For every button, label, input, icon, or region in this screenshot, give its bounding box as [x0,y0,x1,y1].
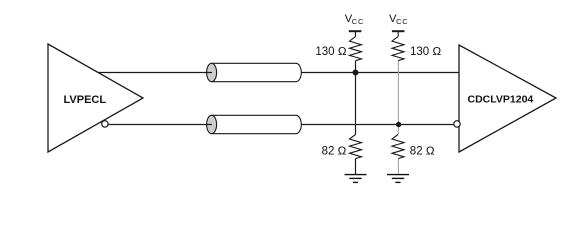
transmission line TL2 (bottom coax) [207,115,302,133]
svg-text:CC: CC [396,17,408,26]
wire: top from transmission line to receiver [301,72,459,74]
ground (left) [345,175,367,183]
ground (right) [387,175,409,183]
value label 82 ohm (right) [410,145,435,157]
wire: R4 bottom to ground (right) [397,159,399,175]
svg-text:130 Ω: 130 Ω [315,46,346,58]
power VCC symbol (left) [345,13,365,37]
resistor R4 82 ohm (right, to ground) [392,135,404,159]
bubble on LVPECL inverted output [102,121,108,127]
wire: left vertical branch (R1 bottom through node A down to R3) [355,61,357,135]
resistor R1 130 ohm (left, to VCC) [350,37,362,61]
wire: top output from LVPECL to transmission line [98,72,209,74]
value label 82 ohm (left) [322,145,347,157]
wire: bottom output from LVPECL bubble to transmission line [108,124,209,126]
receiver U2 CDCLVP1204 triangle [459,45,556,152]
wire: R3 bottom to ground (left) [355,159,357,175]
svg-text:130 Ω: 130 Ω [410,46,441,58]
svg-text:CDCLVP1204: CDCLVP1204 [468,93,534,105]
label CDCLVP1204 [468,93,534,105]
node A junction dot (left branch on top wire) [353,70,359,76]
resistor R2 130 ohm (right, to VCC) [392,37,404,61]
svg-text:82 Ω: 82 Ω [322,145,347,157]
driver U1 LVPECL triangle [48,44,143,152]
label LVPECL [64,94,107,106]
bubble on CDCLVP1204 inverting input [454,121,460,127]
value label 130 ohm (right) [410,46,441,58]
transmission line TL1 (top coax) [207,63,302,81]
wire: bottom from transmission line to receiver bubble [301,124,454,126]
value label 130 ohm (left) [315,46,346,58]
svg-text:82 Ω: 82 Ω [410,145,435,157]
wire: right vertical branch (R2 bottom across top wire down to node B and R4) [397,61,399,135]
resistor R3 82 ohm (left, to ground) [350,135,362,159]
node B junction dot (right branch on bottom wire) [396,122,401,127]
svg-text:CC: CC [352,17,364,26]
power VCC symbol (right) [389,13,409,37]
svg-text:LVPECL: LVPECL [64,94,107,106]
